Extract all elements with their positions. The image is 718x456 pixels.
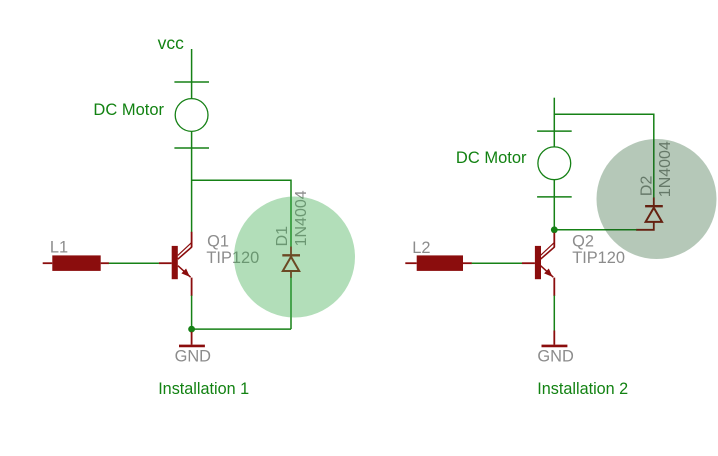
wire: motor bottom to collector of Q1	[191, 132, 193, 233]
collector pin (red)	[191, 232, 193, 247]
wire: L2 to base of Q2	[472, 262, 522, 264]
wire: diode D1 anode pin (red)	[290, 271, 292, 278]
emitter diagonal	[541, 266, 554, 278]
body	[52, 255, 100, 271]
wire: collector node to diode D2 anode	[554, 229, 636, 231]
diode D2 cathode bar	[645, 205, 663, 207]
body	[417, 255, 463, 271]
wire: diode D2 anode pin down and left (red)	[636, 222, 654, 230]
highlight circle over D2	[597, 139, 717, 259]
wire: branch down to motor	[553, 114, 555, 147]
left lead	[405, 262, 416, 264]
wire: branch to diode D1 top (node between motor and collector)	[192, 180, 291, 247]
transistor Q2 (TIP120, NPN darlington)	[522, 233, 555, 296]
svg-text:Installation 2: Installation 2	[537, 380, 628, 398]
wire: ground pin (red)	[191, 332, 193, 345]
wire: L1 to base of Q1	[109, 262, 159, 264]
right lead	[463, 262, 472, 264]
inductor L1 (load)	[43, 255, 109, 271]
collector double diagonal	[178, 243, 192, 256]
svg-text:L2: L2	[412, 239, 430, 257]
motor M (circle symbol)	[538, 147, 571, 180]
svg-text:Installation 1: Installation 1	[158, 380, 249, 398]
diode D2 triangle	[646, 208, 662, 222]
base pin (red)	[159, 262, 172, 264]
transistor Q1 (TIP120, NPN darlington)	[159, 232, 192, 296]
wire: emitter to ground node	[191, 296, 193, 330]
wire: VCC down to motor top	[191, 49, 193, 99]
wire: ground pin (red)	[553, 331, 555, 345]
emitter arrowhead	[181, 269, 190, 277]
wire: diode D1 anode down to emitter node	[290, 278, 292, 330]
svg-text:vcc: vcc	[158, 33, 185, 53]
diode D1 cathode bar	[282, 254, 300, 256]
base pin (red)	[522, 262, 535, 264]
motor terminal tick (bottom)	[537, 196, 572, 198]
wire: emitter node to diode branch (bottom)	[192, 328, 291, 330]
wire: diode D2 cathode pin (red)	[653, 198, 655, 207]
motor terminal tick (top)	[537, 130, 572, 132]
junction dot (motor / collector / diode node)	[551, 226, 558, 233]
svg-text:GND: GND	[175, 347, 212, 365]
ground symbol bar	[179, 345, 205, 348]
base bar	[172, 246, 178, 279]
collector pin (red)	[553, 233, 555, 248]
wire: VCC stub at top	[553, 98, 555, 115]
motor terminal tick (bottom)	[174, 147, 209, 149]
junction dot (emitter / diode / ground node)	[188, 326, 195, 333]
emitter arrowhead	[544, 269, 553, 277]
inductor L2 (load)	[405, 255, 472, 271]
svg-text:DC Motor: DC Motor	[93, 101, 164, 119]
motor M (circle symbol)	[175, 99, 208, 132]
wire: emitter to ground	[553, 296, 555, 332]
base bar	[535, 246, 541, 279]
emitter diagonal	[178, 266, 191, 278]
wire: branch to diode D2 cathode (top)	[554, 114, 654, 198]
left lead	[43, 262, 53, 264]
svg-text:L1: L1	[50, 239, 68, 257]
svg-text:DC Motor: DC Motor	[456, 149, 527, 167]
collector double diagonal	[541, 243, 555, 256]
wire: motor bottom to collector node	[553, 180, 555, 230]
svg-text:GND: GND	[537, 347, 574, 365]
highlight circle over D1	[234, 197, 355, 318]
svg-text:TIP120: TIP120	[572, 249, 625, 267]
emitter pin (red)	[191, 278, 193, 296]
right lead	[101, 262, 109, 264]
ground symbol bar	[542, 345, 568, 348]
motor terminal tick (top)	[174, 81, 209, 83]
diode D1 triangle	[283, 257, 299, 271]
emitter pin (red)	[553, 278, 555, 296]
wire: diode D1 cathode pin (red)	[290, 247, 292, 256]
